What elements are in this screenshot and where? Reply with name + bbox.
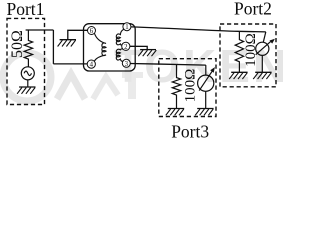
ground (pin 6): [58, 40, 76, 47]
pin 3: [122, 59, 130, 68]
wire node down: [52, 30, 54, 64]
svg-text:1: 1: [125, 24, 128, 31]
Port3 dashed enclosure: [159, 59, 216, 117]
wire pin 6 to ground: [68, 30, 88, 39]
wire to pin 4: [53, 63, 87, 65]
svg-text:Port1: Port1: [7, 0, 45, 19]
AC source V1: [21, 67, 34, 80]
ground (Port3 meter): [195, 109, 213, 116]
svg-text:3: 3: [125, 61, 129, 68]
ground (Port2 resistor): [229, 72, 247, 79]
resistor 50Ω (Port1 source impedance): [24, 30, 32, 67]
svg-text:2: 2: [124, 44, 128, 51]
power meter (Port2): [256, 32, 271, 72]
pin 4: [87, 60, 95, 69]
wire pin 3 to Port3: [130, 64, 206, 66]
wire pin 1 to Port2: [131, 27, 266, 32]
pin 2: [122, 42, 130, 51]
wire pin 2 to ground: [130, 46, 147, 49]
svg-text:100Ω: 100Ω: [183, 69, 199, 103]
resistor 100Ω (Port2 load): [235, 31, 243, 72]
transformer T1 body: [84, 24, 136, 71]
wire Port1 to node: [26, 29, 54, 31]
pin 1: [123, 23, 131, 32]
wire source to ground: [27, 80, 29, 87]
ground (pin 2): [138, 50, 156, 57]
svg-text:6: 6: [90, 28, 94, 35]
svg-text:Port3: Port3: [171, 121, 209, 141]
svg-text:Port2: Port2: [234, 0, 272, 18]
Port1 dashed enclosure: [7, 18, 45, 104]
svg-text:4: 4: [90, 62, 94, 69]
svg-text:50Ω: 50Ω: [9, 30, 26, 58]
ground (Port3 resistor): [166, 109, 184, 116]
pin 6: [88, 27, 96, 36]
ground (Port2 meter): [253, 72, 271, 79]
power meter (Port3): [198, 65, 214, 108]
secondary winding lower: [116, 49, 123, 61]
Port2 dashed enclosure: [220, 24, 276, 87]
ground (Port1 source): [17, 87, 35, 94]
secondary winding upper: [116, 29, 124, 45]
primary winding: [94, 33, 106, 61]
resistor 100Ω (Port3 load): [172, 64, 180, 108]
svg-text:100Ω: 100Ω: [243, 33, 259, 67]
